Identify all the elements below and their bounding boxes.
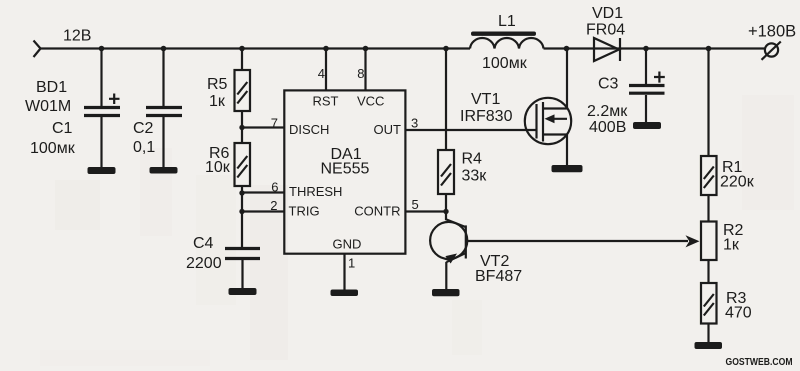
svg-text:3: 3 — [411, 116, 418, 131]
label C4 — [193, 235, 214, 252]
wire pin6 THRESH — [242, 191, 284, 193]
svg-text:2.2мк: 2.2мк — [587, 103, 628, 120]
svg-text:6: 6 — [271, 180, 278, 195]
label R1 — [722, 159, 743, 176]
label 33к (R4) — [462, 168, 488, 185]
label BD1 — [36, 79, 67, 96]
svg-text:+180В: +180В — [748, 23, 796, 41]
wire rail to R5 — [241, 49, 243, 71]
node rail-R4 — [443, 46, 449, 52]
svg-text:FR04: FR04 — [586, 22, 625, 39]
node rail-R1 — [706, 46, 712, 52]
wire R3 bottom — [707, 324, 709, 343]
pin number 6 — [271, 180, 278, 195]
svg-text:VCC: VCC — [357, 94, 384, 109]
label 220к (R1) — [720, 174, 755, 191]
pin label DISCH — [289, 122, 329, 137]
pin number 8 — [357, 66, 364, 81]
diode VD1 — [594, 38, 620, 61]
svg-text:NE555: NE555 — [321, 161, 370, 178]
ground VT1 source — [552, 165, 583, 172]
wire +12V rail (left of L1) — [41, 47, 471, 49]
transistor VT1 (MOSFET) — [525, 98, 571, 144]
ground C3 — [633, 122, 661, 129]
capacitor C4 — [225, 249, 260, 259]
resistor R2 (trimmer) — [701, 222, 717, 261]
svg-text:5: 5 — [412, 197, 419, 212]
wire R1-R2 — [707, 195, 709, 222]
node TRIG junction — [239, 209, 244, 214]
label NE555 — [321, 161, 370, 178]
wire VT2 base to R2 wiper (arrow) — [466, 235, 700, 247]
label 1к (R2) — [723, 237, 740, 254]
wire VT1 source to ground — [566, 135, 568, 166]
pin label TRIG — [289, 204, 320, 219]
label 470 (R3) — [725, 305, 752, 322]
pin number 5 — [412, 197, 419, 212]
svg-text:400В: 400В — [589, 119, 626, 136]
pin label GND — [333, 237, 362, 252]
label 100мк (C1) — [30, 140, 76, 157]
inductor L1 — [470, 32, 544, 49]
label 2.2мк (C3) — [587, 103, 628, 120]
svg-text:100мк: 100мк — [482, 55, 528, 72]
wire C2 bottom — [162, 117, 164, 167]
svg-text:DISCH: DISCH — [289, 122, 329, 137]
node rail-C2 — [161, 46, 167, 52]
op-amp/timer DA1 NE555 body — [284, 90, 405, 253]
wire rail to R1 — [707, 49, 709, 157]
pin number 1 — [348, 256, 355, 271]
node THRESH junction — [239, 190, 244, 195]
resistor R4 — [438, 150, 454, 194]
wire VT2 emitter to ground — [445, 262, 447, 289]
label L1 — [498, 13, 516, 30]
node rail-VT1 drain — [564, 46, 570, 52]
wire R4 to VT2 collector — [445, 194, 447, 220]
pin label RST — [313, 94, 339, 109]
svg-text:1: 1 — [348, 256, 355, 271]
wire R6 bottom to C4 — [241, 186, 243, 247]
label BF487 — [475, 268, 522, 285]
svg-text:GOSTWEB.COM: GOSTWEB.COM — [726, 356, 793, 368]
wire C2 top — [162, 49, 164, 107]
label IRF830 — [460, 108, 513, 125]
wire pin1 GND — [343, 254, 345, 290]
pin number 2 — [270, 198, 277, 213]
svg-text:100мк: 100мк — [30, 140, 76, 157]
label VT1 — [471, 91, 500, 108]
svg-text:VT1: VT1 — [471, 91, 500, 108]
pin label OUT — [374, 122, 402, 137]
node rail-C3 — [643, 46, 649, 52]
resistor R1 — [701, 156, 717, 195]
svg-text:C4: C4 — [193, 235, 214, 252]
svg-text:8: 8 — [357, 66, 364, 81]
label 10к (R6) — [205, 159, 231, 176]
svg-text:0,1: 0,1 — [133, 139, 155, 156]
watermark GOSTWEB.COM — [726, 356, 793, 368]
wire C3 top — [645, 49, 647, 85]
label R2 — [723, 222, 744, 239]
wire C4 bottom — [241, 260, 243, 288]
svg-text:C3: C3 — [598, 76, 619, 93]
label VT2 — [480, 253, 509, 270]
label 100мк (L1) — [482, 55, 528, 72]
svg-text:33к: 33к — [462, 168, 488, 185]
label R4 — [462, 151, 483, 168]
label C3 — [598, 76, 619, 93]
label R6 — [209, 145, 230, 162]
node rail-pin8 — [363, 46, 369, 52]
wire pin5 CONTR — [405, 210, 446, 212]
svg-text:C2: C2 — [133, 120, 154, 137]
wire pin4 — [325, 49, 327, 91]
label R3 — [726, 290, 747, 307]
svg-text:R5: R5 — [207, 76, 228, 93]
wire +12V rail (right of L1 to output) — [544, 47, 766, 49]
svg-text:VD1: VD1 — [592, 5, 623, 22]
pin label VCC — [357, 94, 384, 109]
label VD1 — [592, 5, 623, 22]
capacitor C1 — [84, 94, 120, 116]
capacitor C3 — [629, 72, 665, 94]
label C1 — [52, 120, 73, 137]
label FR04 — [586, 22, 625, 39]
resistor R5 — [235, 70, 251, 111]
svg-text:TRIG: TRIG — [289, 204, 320, 219]
ground C2 — [150, 167, 178, 174]
ground R3 — [695, 342, 723, 349]
svg-text:220к: 220к — [720, 174, 755, 191]
svg-text:W01M: W01M — [25, 98, 71, 115]
svg-text:C1: C1 — [52, 120, 73, 137]
svg-text:RST: RST — [313, 94, 339, 109]
label 1к (R5) — [209, 93, 226, 110]
svg-text:4: 4 — [318, 66, 325, 81]
svg-text:CONTR: CONTR — [354, 204, 400, 219]
ground DA1 pin1 — [331, 290, 359, 297]
svg-text:2200: 2200 — [186, 255, 222, 272]
svg-text:10к: 10к — [205, 159, 231, 176]
pin label THRESH — [289, 184, 342, 199]
pin number 3 — [411, 116, 418, 131]
resistor R3 — [701, 283, 717, 324]
wire VT1 drain to rail — [566, 49, 568, 109]
wire R2-R3 — [707, 260, 709, 283]
svg-text:2: 2 — [270, 198, 277, 213]
svg-text:OUT: OUT — [374, 122, 402, 137]
label 2200 (C4) — [186, 255, 222, 272]
label W01M — [25, 98, 71, 115]
label +180В — [748, 23, 796, 41]
transistor VT2 (BJT) — [430, 219, 467, 264]
wire C1 bottom — [100, 117, 102, 167]
svg-text:L1: L1 — [498, 13, 516, 30]
label R5 — [207, 76, 228, 93]
ground C1 — [88, 167, 116, 174]
node rail-pin4 — [323, 46, 329, 52]
wire pin3 OUT to VT1 gate — [405, 129, 536, 131]
node DISCH junction — [239, 125, 244, 130]
capacitor C2 — [146, 108, 182, 116]
svg-text:1к: 1к — [209, 93, 226, 110]
svg-text:1к: 1к — [723, 237, 740, 254]
wire pin2 TRIG — [242, 210, 284, 212]
svg-text:THRESH: THRESH — [289, 184, 342, 199]
output terminal +180V — [762, 42, 781, 60]
label 12В — [63, 28, 91, 45]
input terminal 12V — [34, 41, 41, 58]
node pin5-R4-VT2 — [443, 209, 448, 214]
pin number 7 — [271, 116, 278, 131]
wire rail to R4 (crosses OUT) — [445, 49, 447, 151]
svg-text:GND: GND — [333, 237, 362, 252]
wire C1 top — [100, 49, 102, 107]
wire C3 bottom — [645, 95, 647, 122]
label 400В (C3) — [589, 119, 626, 136]
svg-text:R4: R4 — [462, 151, 483, 168]
pin number 4 — [318, 66, 325, 81]
label C2 — [133, 120, 154, 137]
resistor R6 — [235, 143, 251, 186]
wire pin7 DISCH — [242, 126, 284, 128]
label DA1 — [331, 146, 362, 163]
label 0.1 (C2) — [133, 139, 155, 156]
svg-text:12В: 12В — [63, 28, 91, 45]
svg-text:470: 470 — [725, 305, 752, 322]
svg-text:BF487: BF487 — [475, 268, 522, 285]
wire pin8 — [364, 49, 366, 91]
ground VT2 — [432, 289, 460, 296]
svg-text:7: 7 — [271, 116, 278, 131]
node rail-R5 — [239, 46, 245, 52]
ground C4 — [229, 288, 257, 295]
pin label CONTR — [354, 204, 400, 219]
svg-text:IRF830: IRF830 — [460, 108, 513, 125]
svg-text:BD1: BD1 — [36, 79, 67, 96]
wire R5-R6 — [241, 111, 243, 143]
node rail-C1 — [99, 46, 105, 52]
